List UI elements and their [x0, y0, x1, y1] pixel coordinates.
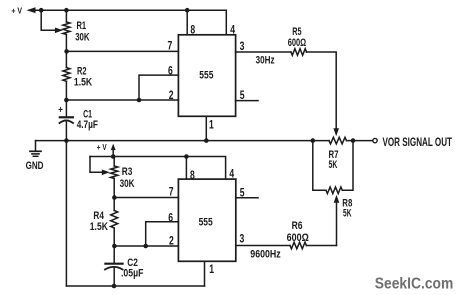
ground	[35, 141, 37, 151]
svg-text:5K: 5K	[343, 208, 352, 220]
node J15 pin6/pin2 bottom	[143, 244, 148, 249]
capacitor C1 4.7uF	[65, 100, 67, 116]
svg-text:6: 6	[168, 210, 173, 224]
wire pin1 bottom 555	[204, 261, 206, 286]
wire R3 wiper tap	[90, 157, 103, 173]
svg-text:600Ω: 600Ω	[287, 232, 309, 244]
svg-text:1: 1	[209, 118, 214, 132]
svg-text:3: 3	[240, 232, 245, 246]
wire pin5 top stub	[236, 100, 259, 102]
capacitor C2 .05uF	[113, 246, 115, 263]
svg-text:555: 555	[199, 70, 213, 82]
resistor R7 5K (potentiometer)	[329, 137, 347, 144]
wire main output rail	[36, 140, 330, 142]
wire pin1 top 555	[205, 116, 207, 140]
svg-text:+ V: + V	[11, 5, 22, 15]
wire bottom +V rail	[90, 157, 226, 180]
svg-text:5: 5	[240, 185, 245, 199]
svg-text:3: 3	[240, 39, 245, 53]
IC U1 555 (top)	[178, 35, 235, 117]
svg-text:4: 4	[230, 23, 235, 37]
node J14 R4/C2/pin2	[112, 244, 117, 249]
node +V terminal arrow (bottom)	[112, 150, 114, 157]
node J8 pin1 top/main rail	[204, 138, 209, 143]
node J11 +V stem bottom	[111, 154, 116, 159]
wire pin6 bottom	[146, 222, 179, 246]
wire R7/R8 right leg	[342, 141, 353, 191]
svg-text:6: 6	[168, 63, 173, 77]
svg-text:600Ω: 600Ω	[288, 37, 307, 49]
svg-text:.05µF: .05µF	[121, 267, 144, 279]
svg-text:+: +	[58, 105, 63, 116]
wire pin8 top	[186, 10, 188, 35]
svg-text:5K: 5K	[329, 159, 338, 171]
wire top +V rail	[31, 10, 226, 35]
svg-text:2: 2	[169, 234, 174, 248]
wire R5 to R7 wiper	[307, 52, 337, 129]
svg-text:9600Hz: 9600Hz	[250, 248, 281, 260]
wire pin7 bottom	[114, 197, 178, 199]
svg-text:R3: R3	[122, 166, 133, 178]
node J6 pin6/pin2 top	[137, 98, 142, 103]
wire bottom rail	[66, 285, 204, 287]
svg-text:1.5K: 1.5K	[90, 221, 108, 233]
node J1 top rail / wiper	[39, 8, 44, 13]
svg-text:R4: R4	[93, 210, 104, 222]
svg-text:4: 4	[229, 167, 234, 181]
wire pin7 top	[66, 50, 178, 52]
node J10 R7 right	[351, 138, 356, 143]
node J12 pin8 bottom	[184, 154, 189, 159]
wire pin2 bottom	[114, 245, 178, 247]
svg-text:VOR SIGNAL OUT: VOR SIGNAL OUT	[383, 135, 453, 149]
node J16 C2/bottom rail	[112, 284, 117, 289]
resistor R5 600ohm	[291, 49, 307, 56]
wire R1 wiper tap	[41, 10, 56, 30]
svg-text:30K: 30K	[75, 31, 89, 43]
node VOR SIGNAL OUT terminal	[373, 138, 377, 142]
resistor R4 1.5K	[111, 211, 118, 229]
wire R8 wiper from R6	[336, 203, 338, 245]
node J5 R2/C1/pin2	[64, 98, 69, 103]
resistor R1 30K (potentiometer)	[65, 10, 67, 22]
wire pin2 top	[66, 99, 178, 101]
svg-text:SeekIC.com: SeekIC.com	[375, 276, 454, 293]
svg-text:4.7µF: 4.7µF	[77, 119, 98, 131]
svg-text:2: 2	[169, 88, 174, 102]
svg-text:30K: 30K	[120, 178, 135, 190]
svg-text:+ V: + V	[97, 142, 107, 152]
svg-text:8: 8	[190, 168, 195, 182]
wire pin5 bottom stub	[236, 197, 258, 199]
node J13 R3/R4/pin7	[112, 195, 117, 200]
wire pin3 bottom to R6	[236, 245, 290, 247]
svg-text:30Hz: 30Hz	[256, 54, 275, 66]
wire R7/R8 left leg	[313, 141, 326, 191]
resistor R8 5K (potentiometer)	[326, 187, 342, 194]
node +V terminal arrow (top left)	[27, 7, 36, 13]
svg-text:GND: GND	[26, 160, 44, 172]
node J7 C1/main rail	[64, 138, 69, 143]
resistor R2 1.5K	[63, 68, 70, 82]
resistor R6 600ohm	[290, 242, 306, 249]
wire pin6 top	[139, 75, 178, 100]
node J2 top rail / R1	[64, 8, 69, 13]
wire pin8 bottom	[185, 157, 187, 180]
node J9 R7 left	[311, 138, 316, 143]
svg-text:7: 7	[168, 38, 173, 52]
svg-text:1: 1	[209, 262, 214, 276]
wire pin3 top to R5	[236, 51, 292, 53]
svg-text:5: 5	[240, 88, 245, 102]
svg-text:555: 555	[199, 216, 213, 228]
svg-text:R6: R6	[292, 220, 303, 232]
wire left rail down	[65, 141, 67, 286]
svg-text:7: 7	[169, 185, 174, 199]
resistor R3 30K (potentiometer)	[113, 157, 115, 167]
svg-text:1.5K: 1.5K	[74, 76, 92, 88]
node J4 R1/R2/pin7	[64, 49, 69, 54]
svg-text:8: 8	[190, 23, 195, 37]
IC U2 555 (bottom)	[178, 179, 235, 261]
node J3 top rail / pin8	[185, 8, 190, 13]
